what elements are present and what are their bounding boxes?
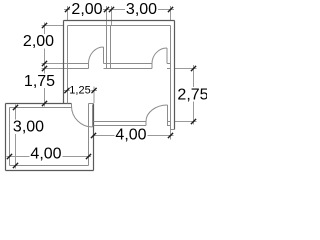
label 3,00 room <box>13 119 46 136</box>
label 4,00 middle <box>115 127 148 144</box>
label 2,00 top <box>70 1 103 18</box>
svg-text:2,00: 2,00 <box>71 1 102 18</box>
tick room4 right <box>86 154 91 159</box>
extension line mid4 left <box>93 128 95 140</box>
room right wall top cap <box>89 103 94 105</box>
tick room4 left <box>7 154 12 159</box>
wall interior horizontal middle segment <box>104 64 153 69</box>
tick left 3 <box>42 66 47 71</box>
label 2,00 left <box>22 33 55 50</box>
tick mid4 left <box>91 133 96 138</box>
room wall top outer <box>6 103 72 105</box>
tick 2,75 bottom <box>191 119 196 124</box>
extension line left y63 <box>42 63 69 65</box>
label 2,75 <box>177 87 208 104</box>
wall right end cap <box>171 129 175 131</box>
tick left 4 <box>42 101 47 106</box>
room wall right inner <box>88 104 90 166</box>
wall top outer <box>64 20 175 22</box>
tick top 1 <box>65 7 70 12</box>
tick top 3 <box>109 7 114 12</box>
extension line top-right <box>170 6 172 20</box>
dimension line room 4,00 <box>7 156 92 158</box>
door bottom-right arc <box>146 105 168 122</box>
extension line mid4 right <box>170 126 172 140</box>
extension line left y68 <box>42 68 69 70</box>
svg-text:2,00: 2,00 <box>23 33 54 50</box>
extension line 1,25 right <box>93 87 95 104</box>
wall left outer <box>63 21 65 104</box>
door top-left arc <box>89 47 104 64</box>
door top-right leaf <box>166 48 168 64</box>
dimension line left <box>44 23 46 107</box>
extension line 2,75 bottom <box>175 121 197 123</box>
door corridor leaf <box>92 105 94 128</box>
room wall top inner <box>10 107 72 109</box>
room wall left outer <box>5 104 7 171</box>
extension line 2,75 top <box>175 68 197 70</box>
tick mid4 right <box>168 133 173 138</box>
room wall right outer <box>93 104 95 171</box>
wall bottom horizontal right segment <box>168 122 171 126</box>
wall bottom horizontal left segment <box>94 122 147 126</box>
svg-text:4,00: 4,00 <box>30 146 61 163</box>
svg-text:3,00: 3,00 <box>126 1 157 18</box>
dimension line 1,25 <box>64 90 97 92</box>
svg-text:4,00: 4,00 <box>115 127 146 144</box>
tick top 2 <box>104 7 109 12</box>
door top-left leaf <box>103 47 105 64</box>
room wall bottom outer <box>6 170 94 172</box>
tick 1,25 right <box>91 88 96 93</box>
door corridor arc <box>72 106 93 127</box>
svg-text:3,00: 3,00 <box>13 119 44 136</box>
door bottom-right leaf <box>167 105 169 126</box>
tick room3 top <box>13 105 18 110</box>
wall right inner <box>170 26 172 130</box>
tick 1,25 left <box>64 88 69 93</box>
room doorway left jamb cap <box>71 104 73 108</box>
tick 2,75 top <box>191 66 196 71</box>
room wall left inner <box>9 108 11 166</box>
extension line top mid-a <box>106 6 108 25</box>
tick top 4 <box>168 7 173 12</box>
room wall bottom inner <box>10 165 89 167</box>
svg-text:2,75: 2,75 <box>177 87 207 104</box>
svg-text:1,25: 1,25 <box>69 85 90 97</box>
svg-text:1,75: 1,75 <box>24 73 55 90</box>
label 4,00 room <box>30 146 63 163</box>
wall top inner <box>68 25 171 27</box>
dimension line 2,75 <box>193 65 195 125</box>
wall right outer <box>174 21 176 130</box>
dimension line top <box>64 9 174 11</box>
dimension line middle 4,00 <box>93 135 174 137</box>
door top-right arc <box>152 48 167 64</box>
label 3,00 top <box>125 1 158 18</box>
extension line left y25 <box>42 25 64 27</box>
wall middle vertical <box>107 26 111 69</box>
tick left 2 <box>42 61 47 66</box>
extension line top-left <box>67 6 69 21</box>
wall interior horizontal right segment <box>167 64 171 69</box>
label 1,75 left <box>23 73 56 90</box>
wall interior horizontal left segment <box>68 64 89 69</box>
tick room3 bottom <box>13 163 18 168</box>
dimension line room 3,00 <box>15 105 17 169</box>
tick left 1 <box>42 23 47 28</box>
wall left inner <box>67 26 69 104</box>
extension line top mid-b <box>111 6 113 25</box>
label 1,25 <box>69 85 91 97</box>
